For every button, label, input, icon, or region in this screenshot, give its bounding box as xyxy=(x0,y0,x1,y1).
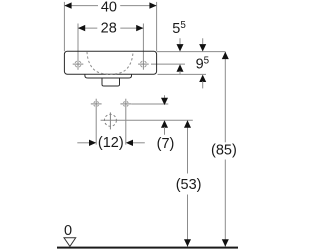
svg-text:(53): (53) xyxy=(176,177,202,193)
svg-text:40: 40 xyxy=(101,0,117,16)
svg-text:28: 28 xyxy=(101,21,117,37)
svg-text:5: 5 xyxy=(172,21,180,37)
svg-text:5: 5 xyxy=(204,55,210,66)
svg-text:(85): (85) xyxy=(211,143,237,159)
svg-text:0: 0 xyxy=(64,223,72,239)
svg-text:9: 9 xyxy=(196,56,204,72)
svg-text:5: 5 xyxy=(180,20,186,31)
svg-text:(7): (7) xyxy=(157,136,175,152)
svg-text:(12): (12) xyxy=(98,135,124,151)
